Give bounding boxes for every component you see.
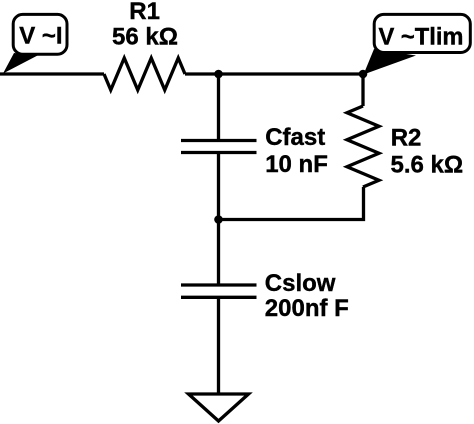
flag V ~I [3,14,67,73]
wire: Cslow bottom plate to ground [217,299,220,394]
svg-text:R1: R1 [129,0,160,25]
svg-text:V ~Tlim: V ~Tlim [379,24,464,51]
svg-text:10 nF: 10 nF [265,151,328,178]
wire: Cfast branch vertical (node A down through Cfast to node B) [217,74,220,139]
node B junction dot (Cfast / Cslow / R2) [214,215,223,224]
svg-text:200nf F: 200nf F [265,295,349,322]
svg-text:R2: R2 [391,125,422,152]
wire: V~Tlim node down to R2 top [361,74,364,106]
flag V ~Tlim [364,14,471,74]
svg-text:V ~I: V ~I [19,23,62,50]
resistor R1 [104,58,185,90]
wire: node B to Cslow top plate [217,220,220,284]
node A junction dot (R1 / Cfast) [214,70,223,79]
ground [189,394,249,421]
svg-text:Cslow: Cslow [265,270,336,297]
wire: Cfast bottom plate down to node B [217,154,220,220]
node V~Tlim junction dot (R1 / R2 / flag) [359,70,368,79]
capacitor Cslow [181,285,257,297]
wire: R1 to V~Tlim node [185,72,363,75]
capacitor Cfast [181,141,257,153]
svg-text:56 kΩ: 56 kΩ [112,24,178,51]
svg-text:5.6 kΩ: 5.6 kΩ [391,152,464,179]
wire: left segment from V~I anchor to R1 [0,72,104,75]
svg-text:Cfast: Cfast [265,124,325,151]
resistor R2 [347,106,379,187]
wire: node B to R2 bottom [219,187,364,220]
